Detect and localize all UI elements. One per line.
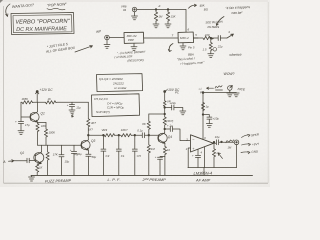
ground top right [233,93,239,97]
wire MXF-2 out [194,37,198,39]
svg-text:2N2222: 2N2222 [112,82,124,86]
resistor VR small [163,101,166,108]
capacitor C 1u output coupling [165,127,190,141]
resistor R7 17K vertical [46,145,49,175]
capacitor C5 shunt [132,135,137,175]
input arrow node A [9,160,28,162]
ground under R1.5 [208,54,214,58]
wire emitter to 100K top [38,122,47,124]
title box [11,13,74,35]
svg-text:or similar: or similar [114,86,128,90]
wire J2 to preamp box [109,37,124,39]
resistor R9 1M bias divider bottom [147,135,150,175]
capacitor C1 shunt [116,135,121,175]
resistor R5 100K [44,123,47,146]
capacitor C emitter bypass [158,157,165,176]
bottom ground rail [31,174,253,176]
svg-text:10K: 10K [41,124,46,128]
curved arrow note at pin5 [168,44,173,52]
svg-text:220: 220 [204,33,210,37]
capacitor C 22u series [211,36,227,41]
svg-text:Pin 5: Pin 5 [188,46,195,50]
svg-text:GND: GND [251,149,259,154]
svg-text:NICE: NICE [237,87,246,92]
ground under preamp box [131,43,137,50]
svg-text:+9V?: +9V? [252,142,260,147]
capacitor C 10u to rail [59,145,64,175]
supply rail with resistor R1 165K and resistor R2 1K [21,101,88,104]
op-amp pin4 wire [204,147,206,168]
transistor Q4 [158,133,167,142]
resistor R11 1K supply [201,103,204,112]
op-amp ground sub-rail [188,167,237,169]
resistor R12 10 zobel [212,142,215,167]
svg-text:+12V DC: +12V DC [40,88,54,92]
resistor R6 1K on Q2 emitter [36,164,42,176]
svg-text:VR3: VR3 [102,128,108,132]
svg-text:100K: 100K [49,131,56,135]
paper edge frame [1,1,268,183]
speaker scribble arrows [242,134,251,137]
svg-text:10: 10 [216,151,219,155]
svg-text:can be": can be" [232,11,244,15]
op-amp supply wire pin6 [202,93,204,140]
arrow output top right [227,34,234,38]
wire rail to divider [149,108,165,115]
svg-text:+10μ: +10μ [213,117,220,121]
capacitor C 10u supply decouple [203,115,212,124]
svg-text:10: 10 [167,148,171,152]
resistor R 1.5 to ground [209,38,212,54]
preamp box U1 [124,32,144,43]
+12V supply node [36,91,38,93]
capacitor C 11u at rail [69,102,74,110]
capacitor C 22u to ground [165,105,183,111]
top wire J1 to MXF-2 pin6 [137,9,186,31]
stray tick mark [72,114,74,118]
svg-text:DC RX MAINFRAME: DC RX MAINFRAME [16,26,67,33]
resistor R 220 [194,36,214,39]
annotation arrow quote to filter [216,17,224,26]
svg-text:1K?: 1K? [88,128,93,132]
ground under C10u [206,124,212,128]
svg-text:1.5: 1.5 [203,48,207,52]
svg-text:PMP: PMP [128,38,134,42]
svg-text:+45: +45 [74,153,79,157]
capacitor C 17u electrolytic [18,122,23,131]
svg-text:1M: 1M [151,147,156,151]
svg-text:17K: 17K [53,152,58,156]
svg-text:17μ: 17μ [25,123,30,127]
transistor Q1 [30,112,39,121]
svg-text:Q3: Q3 [91,139,95,143]
svg-text:C1: C1 [121,154,125,158]
svg-text:C5,C2,C3: C5,C2,C3 [94,97,108,101]
svg-text:4K7: 4K7 [91,121,96,125]
op-amp U3 LM386 [191,135,214,152]
capacitor C 11u on base wire [71,145,76,175]
svg-text:(RESISTOR): (RESISTOR) [127,58,143,63]
+10V rail [165,90,167,101]
svg-text:whence: whence [229,53,241,57]
resistor R4 10K on Q1 emitter [36,122,39,145]
svg-text:FILTERS: FILTERS [208,25,220,29]
svg-text:50μ: 50μ [92,155,97,159]
svg-text:0.1μ: 0.1μ [137,128,143,132]
svg-text:13K: 13K [171,15,176,19]
trim pot scribble [215,86,223,90]
ground under pot [227,90,233,97]
svg-text:Q1-Q4 = 2N3904: Q1-Q4 = 2N3904 [99,77,123,81]
wire rail corner down [87,102,89,119]
capacitor C 10u below op-amp [195,149,200,167]
resistor R3 4K7 [87,119,90,140]
transistor Q3 [81,140,90,149]
svg-text:11μ: 11μ [76,105,81,109]
pot wiper arrow [218,153,222,158]
wire collector [164,129,166,133]
svg-text:1M: 1M [159,15,164,19]
underline under POP NOW [47,8,65,10]
svg-text:2ⁿᴹ PREAMP: 2ⁿᴹ PREAMP [142,177,167,182]
svg-text:LM386N-4: LM386N-4 [193,170,213,175]
svg-text:1ρ: 1ρ [206,105,210,109]
svg-text:MXF-2: MXF-2 [180,36,189,40]
title annotation arrow [6,4,10,17]
svg-text:Q2: Q2 [20,151,25,155]
svg-text:VERBO "POPCORN": VERBO "POPCORN" [15,19,70,26]
top jack J1 [132,7,136,11]
svg-text:10μ: 10μ [215,135,220,139]
resistor Rb [166,9,169,21]
op-amp output wire [214,140,235,145]
svg-text:WOW?: WOW? [224,72,235,76]
svg-text:L.P.F.: L.P.F. [108,178,122,182]
op-amp inverting input stub [188,148,190,168]
MXF-2 pin5 ground [180,43,186,50]
note box Q1-Q4 [97,74,143,92]
MXF-2 box U2 [178,32,194,43]
input jack J2 [105,35,110,40]
LPF series line with resistor VR3 and resistor 10K and capacitor 0.1u [88,133,158,138]
resistor Ra [154,9,157,21]
svg-text:XRF LM: XRF LM [126,34,138,38]
svg-text:165K: 165K [22,97,29,101]
svg-text:Q1: Q1 [41,112,45,116]
svg-text:AF AMP: AF AMP [195,178,211,183]
pot circle with wiper [228,86,232,90]
svg-text:22μ: 22μ [217,45,223,49]
output jack J3 [234,140,239,145]
+10V supply node [164,91,166,93]
svg-text:+: + [15,120,17,124]
wire base Q1 [21,102,31,121]
signal tap at Q3 collector [88,134,90,136]
capacitor C input [27,158,35,163]
svg-text:BO: BO [204,7,209,11]
ground under C11u [69,110,75,114]
ground under C22u [180,111,186,115]
svg-text:1K: 1K [48,97,52,101]
capacitor C 50u on Q3 emitter [86,150,91,175]
top ground wire [203,92,236,94]
svg-text:C3: C3 [106,154,110,158]
svg-text:Q4: Q4 [168,135,172,139]
svg-text:+22μ: +22μ [170,101,177,105]
arrow from note to input jack [75,46,93,52]
svg-text:+ 1μ: + 1μ [167,123,173,127]
svg-text:6K: 6K [142,122,146,126]
svg-text:10μ: 10μ [65,159,70,163]
svg-text:1K: 1K [39,165,43,169]
resistor R13 emitter Q4 [163,143,166,175]
wire Q2 collector up [41,145,43,152]
wire rail down to Q1 collector [37,102,39,112]
resistor R8 6K bias divider top [147,114,150,135]
ground under J2 [104,40,110,49]
svg-text:10K?: 10K? [121,128,128,132]
wire preamp to MXF-2 pin7 [144,37,178,39]
svg-text:04: 04 [123,8,127,12]
ground under Ra [153,22,159,28]
note box C values [92,94,140,117]
transistor Q2 [34,153,44,163]
svg-text:C1R = NPOμ: C1R = NPOμ [107,106,124,110]
ground under C17u [18,131,24,135]
annotation arrow 3dB [189,4,197,8]
long base wire to Q3 [38,144,82,146]
resistor R10 4K7 collector load [163,114,166,129]
ground under Rb [165,22,171,28]
svg-text::C5: :C5 [136,154,141,158]
ground symbol at rail left [29,175,35,181]
svg-text:(4K7): (4K7) [167,119,174,123]
capacitor C3 shunt [101,135,106,175]
ground under J1 [132,12,138,20]
volume pot slant [226,140,234,143]
svg-text:NnP NP(?): NnP NP(?) [96,110,110,114]
WOW chain arrow [207,87,214,89]
